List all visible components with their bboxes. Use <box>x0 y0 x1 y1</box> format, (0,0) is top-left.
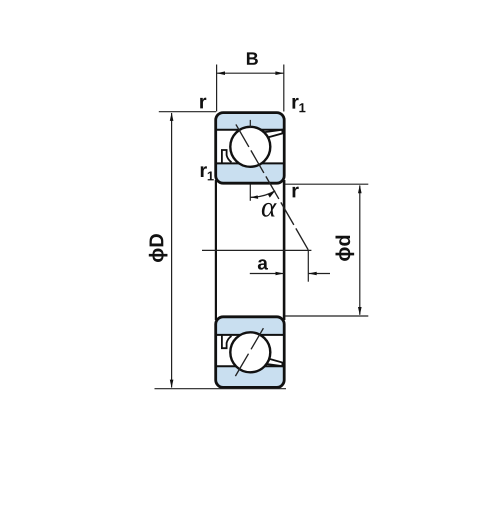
outer+inner ring bottom section (cap) <box>216 317 285 388</box>
label r mid-right <box>293 187 299 198</box>
wire right bearing face line <box>283 180 286 320</box>
cage bar bottom-right <box>263 359 282 367</box>
wire left bearing face line <box>215 180 217 320</box>
arrowhead phid top <box>358 185 362 193</box>
effective center vertical line <box>307 250 309 281</box>
label a <box>258 259 268 269</box>
angle arc alpha <box>250 191 275 198</box>
ball bottom <box>230 332 270 372</box>
dimension B extension line left <box>216 65 218 112</box>
arrowhead arc right <box>268 191 275 198</box>
outer+inner ring top section (cap) <box>216 113 285 184</box>
dimension phid extension line top <box>285 183 368 185</box>
label r top-left <box>200 98 206 109</box>
dimension B line <box>217 72 284 74</box>
dimension a line left part <box>250 273 284 275</box>
contact line through top ball <box>236 124 308 249</box>
axis centerline <box>202 249 311 251</box>
dimension phiD line <box>171 113 173 388</box>
cage bar top-right <box>263 130 282 138</box>
contact line through bottom ball <box>235 328 263 376</box>
arrowhead phid bottom <box>358 307 362 315</box>
arrowhead a right <box>308 272 316 276</box>
dimension phid extension line bottom <box>285 315 368 317</box>
ball top <box>230 127 270 167</box>
cage bar bottom-left <box>222 335 232 348</box>
dimension phiD extension line top <box>159 111 216 113</box>
arrowhead arc left <box>250 195 258 199</box>
label phiD <box>149 234 168 262</box>
arrowhead phiD bottom <box>170 380 174 388</box>
dimension a line right part <box>308 273 330 275</box>
label phid <box>336 236 355 261</box>
label r1 mid-left <box>201 166 207 177</box>
center mark above top ball <box>249 120 251 128</box>
dimension phiD extension line bottom <box>155 388 287 390</box>
label alpha <box>262 203 277 217</box>
arrowhead phiD top <box>170 113 174 121</box>
cage bar top-left <box>222 150 232 163</box>
dimension phid line <box>359 186 361 315</box>
arrowhead a left <box>276 272 284 276</box>
radial reference line below top section <box>249 184 251 200</box>
dimension B extension line right <box>283 65 285 112</box>
label r1 top-right <box>292 98 298 109</box>
arrowhead B left <box>217 71 225 75</box>
label B <box>247 52 258 64</box>
arrowhead B right <box>275 71 283 75</box>
